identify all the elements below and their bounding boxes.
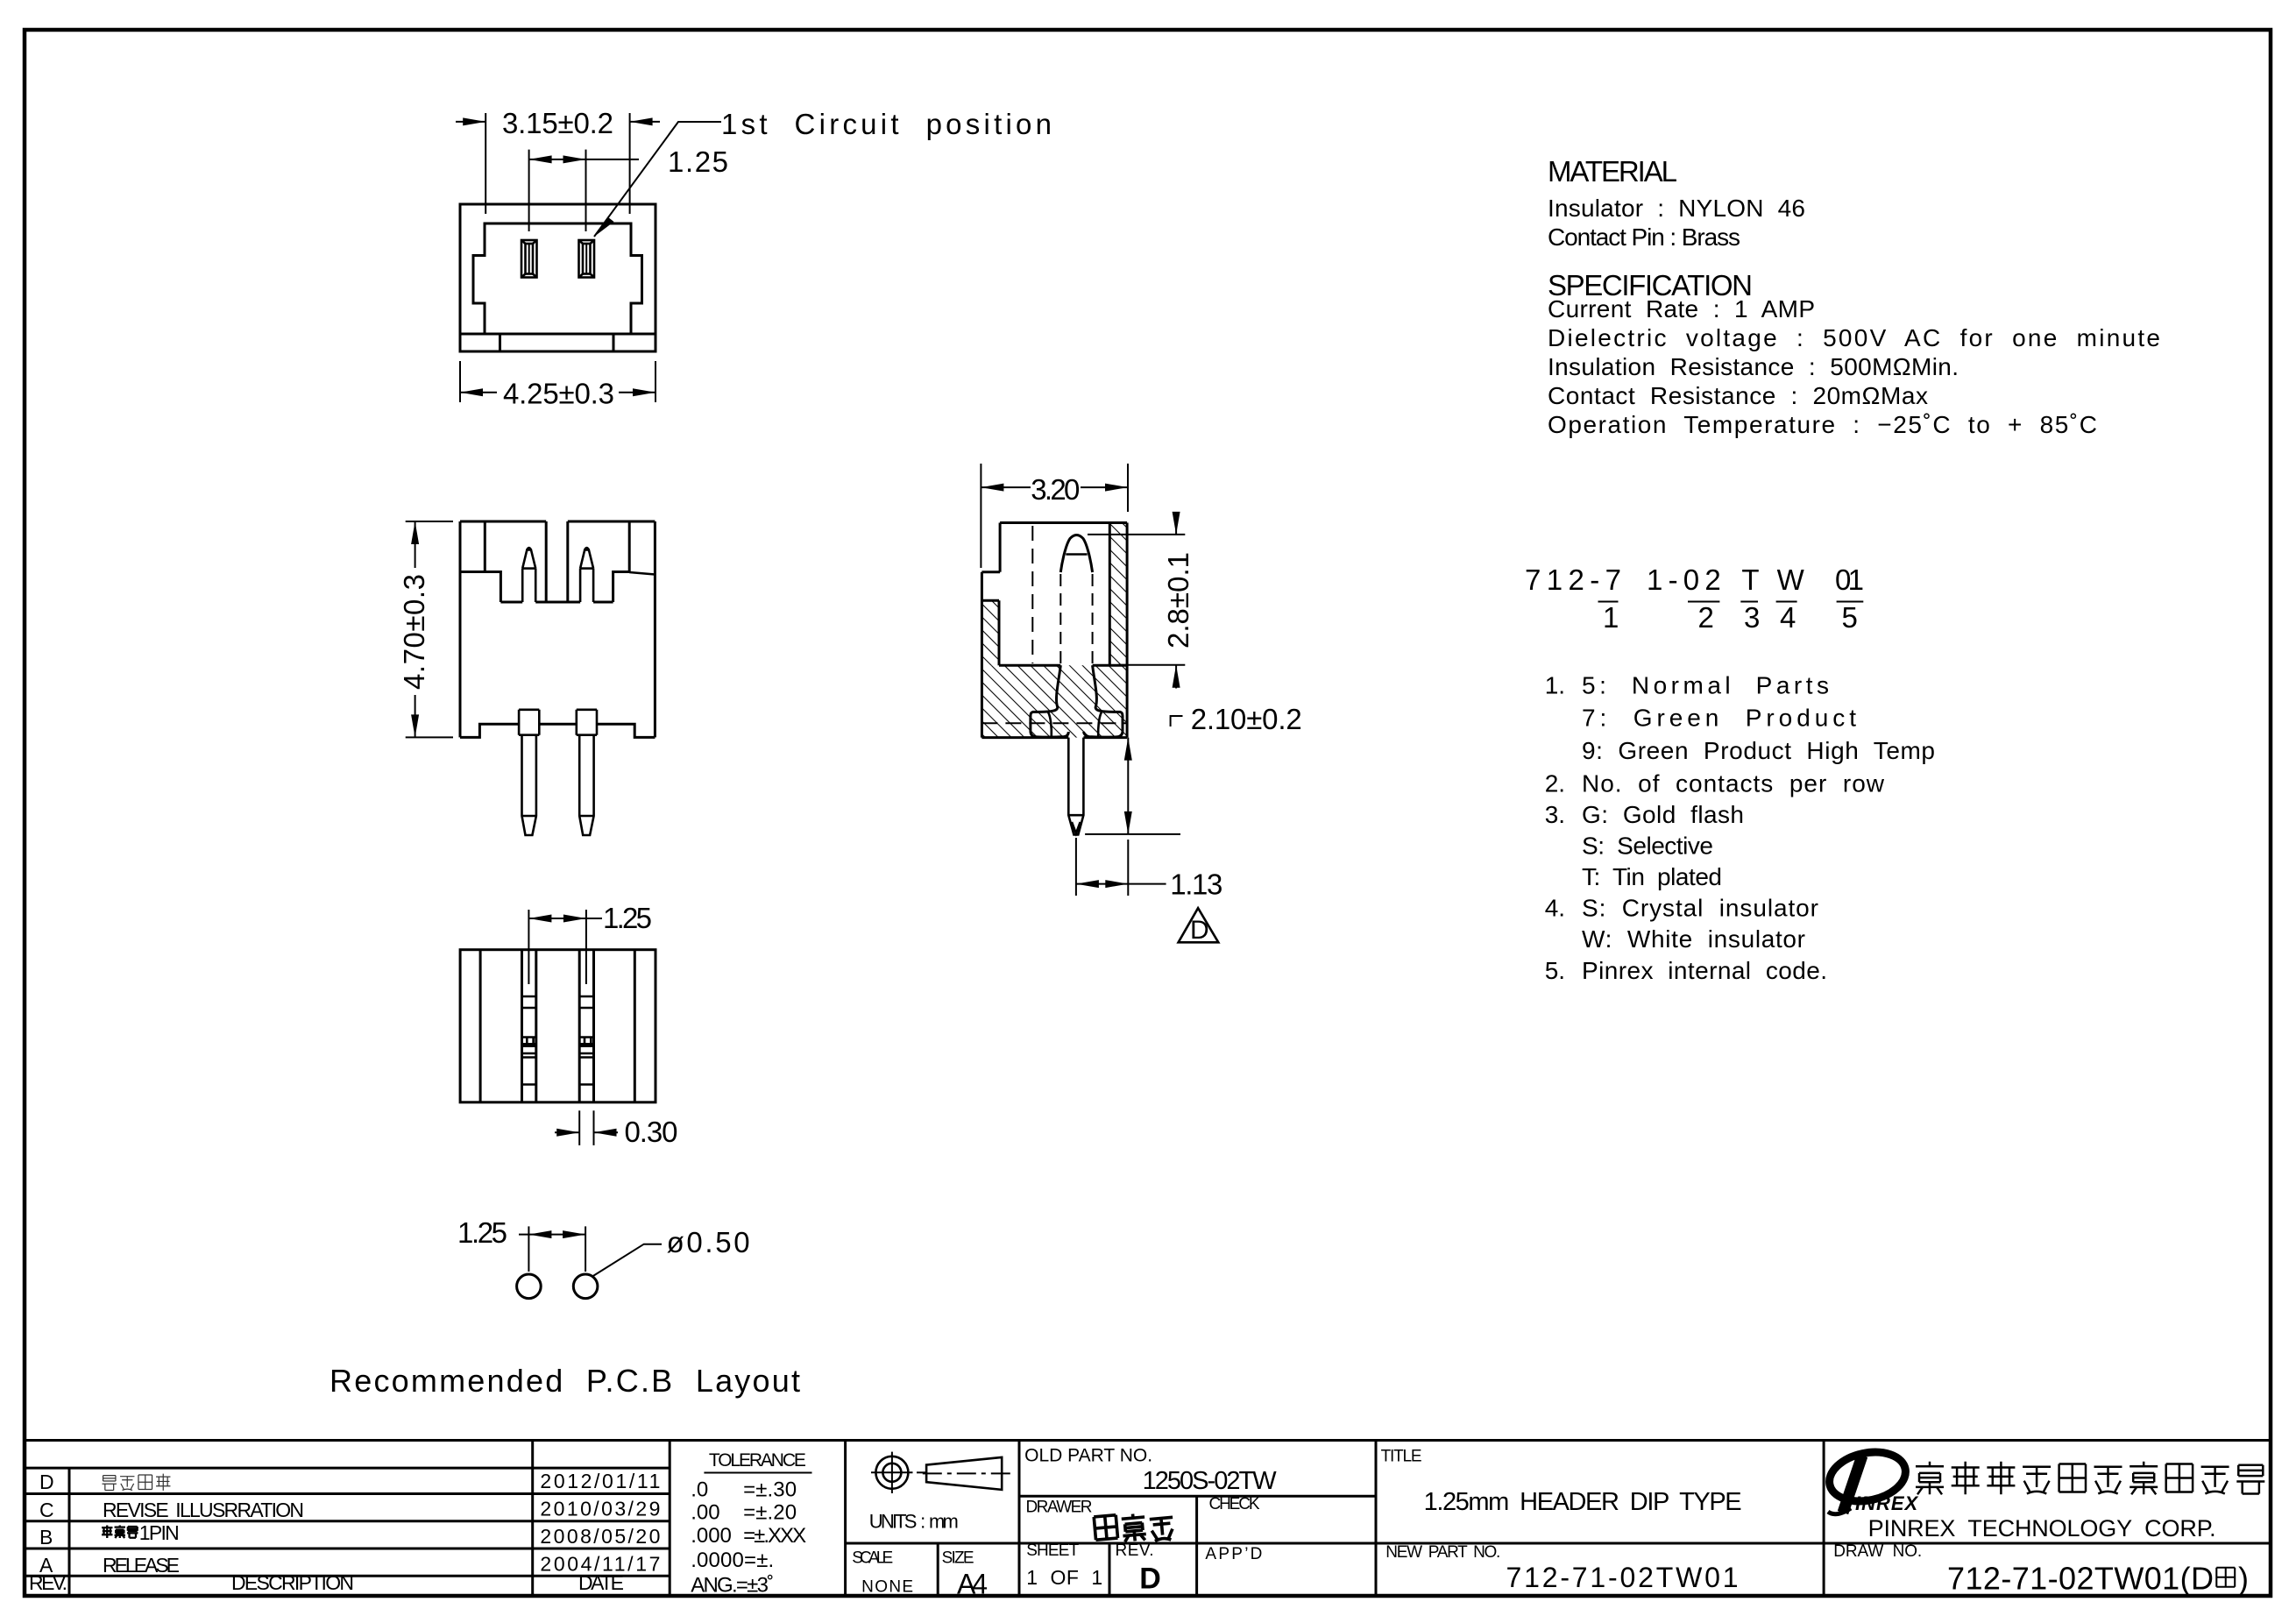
dim 3.20 line and arrows bbox=[981, 486, 1031, 488]
dim 4.70±0.3 extension lines bbox=[406, 521, 453, 522]
side view center slot walls bbox=[545, 521, 548, 602]
title block grid lines bbox=[25, 1441, 2271, 1597]
svg-text:1.25: 1.25 bbox=[457, 1216, 507, 1249]
svg-text:.000: .000 bbox=[691, 1524, 732, 1548]
front view bottom plate bbox=[460, 334, 655, 351]
svg-text:D: D bbox=[39, 1471, 54, 1493]
section hidden line cavity bbox=[1031, 526, 1033, 663]
section body top edge bbox=[1000, 521, 1127, 524]
svg-text:=±.30: =±.30 bbox=[743, 1478, 797, 1502]
svg-text:2.10±0.2: 2.10±0.2 bbox=[1191, 703, 1302, 735]
drawer signature CJK 胡雨婷 bbox=[1094, 1513, 1174, 1541]
svg-text:D: D bbox=[1139, 1563, 1161, 1596]
svg-text:SIZE: SIZE bbox=[942, 1549, 974, 1568]
svg-text:1.: 1. bbox=[1545, 672, 1565, 699]
svg-text:1250S-02TW: 1250S-02TW bbox=[1143, 1467, 1278, 1495]
svg-text:2: 2 bbox=[1698, 601, 1714, 634]
svg-text:2.8±0.1: 2.8±0.1 bbox=[1162, 552, 1194, 648]
svg-text:4.25±0.3: 4.25±0.3 bbox=[503, 378, 614, 410]
rev D description CJK 增加尺寸 bbox=[103, 1474, 171, 1491]
svg-text:9: Green Product High Temp: 9: Green Product High Temp bbox=[1582, 737, 1935, 764]
svg-text:Dielectric voltage : 500V: Dielectric voltage : 500V AC for one min… bbox=[1548, 324, 2160, 351]
section left outer edge bbox=[981, 572, 983, 738]
front view plate divider right bbox=[613, 334, 615, 351]
side view outer left edge bbox=[459, 521, 462, 737]
svg-text:W: W bbox=[1777, 563, 1805, 596]
svg-text:DATE: DATE bbox=[578, 1571, 624, 1594]
dim 4.25±0.3 extension lines bbox=[459, 361, 461, 402]
front view pin 1 slot bbox=[521, 240, 537, 278]
pcb dim 1.25 line and arrows bbox=[519, 1234, 585, 1236]
bottom view channel 1 walls bbox=[521, 950, 523, 1102]
svg-text:3: 3 bbox=[1744, 601, 1760, 634]
bottom view outline bbox=[460, 950, 655, 1102]
front view cavity outline bbox=[473, 223, 642, 334]
section pin dome bbox=[1060, 535, 1092, 573]
side view lower pin 1 bbox=[519, 710, 539, 835]
company name CJK bbox=[1916, 1462, 2264, 1495]
side view upper pin 1 bbox=[522, 548, 535, 602]
svg-text:T: T bbox=[1741, 563, 1759, 596]
cone symbol bbox=[926, 1457, 1002, 1490]
section pin flank right S-curve and foot bbox=[1083, 665, 1123, 737]
section pin shoulder inner curves bbox=[1048, 712, 1052, 737]
front view pin 2 slot bbox=[579, 240, 595, 278]
svg-text:W: White insulator: W: White insulator bbox=[1582, 925, 1805, 953]
svg-text:4: 4 bbox=[1780, 601, 1796, 634]
svg-text:S: Selective: S: Selective bbox=[1582, 832, 1713, 859]
svg-text:ANG.=±3˚: ANG.=±3˚ bbox=[691, 1573, 774, 1597]
svg-text:PINREX TECHNOLOGY CORP.: PINREX TECHNOLOGY CORP. bbox=[1868, 1515, 2216, 1541]
svg-text:1PIN: 1PIN bbox=[139, 1521, 180, 1544]
dim 1.25 extension lines (front) bbox=[528, 150, 530, 231]
dim 0.30 arrows bbox=[555, 1131, 579, 1133]
bottom view inner wall left bbox=[479, 950, 482, 1102]
side view outer right edge bbox=[654, 521, 656, 737]
svg-text:TITLE: TITLE bbox=[1381, 1447, 1422, 1465]
section left wall inner edge bbox=[998, 600, 1001, 665]
dim 2.10±0.2 dim line and arrows bbox=[1127, 738, 1129, 834]
svg-text:REV.: REV. bbox=[29, 1571, 67, 1594]
svg-text:RELEASE: RELEASE bbox=[103, 1554, 180, 1577]
svg-text:APP’D: APP’D bbox=[1205, 1545, 1262, 1563]
section pin rod below bbox=[1068, 738, 1083, 835]
svg-text:B: B bbox=[39, 1526, 53, 1549]
svg-text:A4: A4 bbox=[957, 1569, 988, 1600]
section cavity floor left segment bbox=[999, 664, 1060, 667]
side view left inner wall and step bbox=[460, 521, 500, 602]
svg-text:MATERIAL: MATERIAL bbox=[1548, 155, 1677, 188]
section hatch right wall bbox=[1109, 523, 1127, 666]
side view right wing diagonal bbox=[629, 572, 655, 575]
svg-text:S: Crystal insulator: S: Crystal insulator bbox=[1582, 895, 1818, 922]
svg-text:1.13: 1.13 bbox=[1170, 868, 1222, 900]
svg-text:): ) bbox=[2238, 1561, 2249, 1597]
dim 2.10±0.2 bottom extension bbox=[1085, 833, 1180, 835]
pcb hole 2 bbox=[573, 1274, 598, 1299]
svg-text:1.25: 1.25 bbox=[603, 902, 652, 934]
section bottom edge bbox=[981, 736, 1127, 739]
bottom view inner wall right bbox=[634, 950, 636, 1102]
svg-text:SCALE: SCALE bbox=[852, 1549, 893, 1568]
section left upper wall bbox=[999, 523, 1002, 572]
section right outer edge bbox=[1126, 523, 1129, 738]
dim 1.13 line and arrows bbox=[1076, 883, 1166, 885]
svg-text:Insulation Resistance : 500: Insulation Resistance : 500MΩMin. bbox=[1548, 353, 1959, 380]
dim 1.13 extension lines bbox=[1075, 838, 1077, 896]
side view cavity floor segments bbox=[500, 601, 522, 604]
dim 0.30 extension lines bbox=[578, 1110, 580, 1145]
svg-text:4.: 4. bbox=[1545, 895, 1565, 922]
svg-text:1.25: 1.25 bbox=[668, 145, 728, 178]
svg-text:712-7: 712-7 bbox=[1525, 563, 1621, 596]
svg-text:=±.20: =±.20 bbox=[743, 1501, 797, 1525]
svg-text:Contact Pin : Brass: Contact Pin : Brass bbox=[1548, 223, 1740, 251]
svg-text:.0: .0 bbox=[691, 1478, 708, 1502]
svg-text:ø0.50: ø0.50 bbox=[667, 1226, 750, 1258]
svg-text:5.: 5. bbox=[1545, 957, 1565, 984]
section right wall inner edge bbox=[1109, 523, 1111, 666]
pcb leader for hole diameter bbox=[592, 1244, 662, 1277]
part number underlines bbox=[1598, 601, 1864, 603]
svg-text:D: D bbox=[1190, 916, 1209, 945]
svg-text:3.20: 3.20 bbox=[1031, 473, 1080, 506]
svg-text:DRAW NO.: DRAW NO. bbox=[1833, 1542, 1922, 1561]
svg-text:Current Rate : 1 AMP: Current Rate : 1 AMP bbox=[1548, 295, 1815, 322]
svg-text:Insulator : NYLON 46: Insulator : NYLON 46 bbox=[1548, 195, 1805, 222]
dim 3.15±0.2 lines and arrows bbox=[456, 121, 485, 123]
front view housing outline bbox=[460, 204, 655, 334]
bottom view channel 1 ticks bbox=[522, 996, 536, 1085]
svg-text:712-71-02TW01(D: 712-71-02TW01(D bbox=[1947, 1561, 2214, 1597]
svg-text:3.15±0.2: 3.15±0.2 bbox=[502, 107, 613, 139]
side view lower pin 2 bbox=[577, 710, 597, 835]
section pin dome chord bbox=[1066, 553, 1087, 556]
svg-text:3.: 3. bbox=[1545, 801, 1565, 828]
svg-text:CHECK: CHECK bbox=[1209, 1495, 1260, 1513]
dim 2.10±0.2 elbow bbox=[1171, 716, 1183, 726]
svg-text:4.70±0.3: 4.70±0.3 bbox=[398, 574, 430, 690]
dim 1.25 line and arrows (front) bbox=[529, 159, 639, 160]
pcb dim 1.25 extension lines bbox=[528, 1226, 529, 1272]
svg-text:1.25mm HEADER DIP TYPE: 1.25mm HEADER DIP TYPE bbox=[1424, 1488, 1742, 1516]
section pin hidden flanks bbox=[1059, 574, 1061, 663]
dim 4.70±0.3 dim line and arrows bbox=[415, 521, 416, 568]
section left step bbox=[981, 571, 1000, 573]
svg-text:DESCRIPTION: DESCRIPTION bbox=[231, 1571, 354, 1594]
svg-text:SHEET: SHEET bbox=[1026, 1541, 1079, 1560]
rev B description CJK 標示第1PIN bbox=[102, 1525, 138, 1538]
svg-text:REV.: REV. bbox=[1116, 1541, 1154, 1560]
svg-text:1-02: 1-02 bbox=[1647, 563, 1721, 596]
svg-text:1 OF 1: 1 OF 1 bbox=[1026, 1566, 1102, 1589]
third angle projection symbol bbox=[871, 1452, 926, 1493]
svg-text:.00: .00 bbox=[691, 1501, 719, 1525]
svg-text:01: 01 bbox=[1835, 563, 1864, 596]
side view top edge left segment bbox=[460, 521, 546, 523]
dim 2.8±0.1 arrows bbox=[1175, 513, 1177, 535]
revision triangle D bbox=[1179, 908, 1219, 942]
svg-text:=±.XXX: =±.XXX bbox=[743, 1524, 806, 1548]
svg-text:1: 1 bbox=[1603, 601, 1619, 634]
section cavity floor right segment bbox=[1093, 664, 1128, 667]
side view bottom profile with feet bbox=[460, 724, 655, 737]
section hatch left wall bbox=[981, 600, 999, 665]
svg-text:Recommended P.C.B Layout: Recommended P.C.B Layout bbox=[330, 1363, 800, 1399]
dim 4.25±0.3 line and arrows bbox=[460, 392, 497, 393]
pcb hole 1 bbox=[517, 1274, 542, 1299]
svg-text:REVISE ILLUSRRATION: REVISE ILLUSRRATION bbox=[103, 1499, 304, 1521]
dim 1.25 extension lines (bottom view) bbox=[528, 910, 529, 984]
svg-text:T: Tin plated: T: Tin plated bbox=[1582, 863, 1722, 890]
svg-text:No. of contacts per row: No. of contacts per row bbox=[1582, 769, 1885, 797]
svg-text:.0000=±.: .0000=±. bbox=[691, 1549, 774, 1572]
section left wall hatch top bbox=[981, 599, 999, 602]
svg-text:0.30: 0.30 bbox=[625, 1116, 678, 1148]
side view top edge right segment bbox=[568, 521, 655, 523]
svg-text:OLD PART NO.: OLD PART NO. bbox=[1024, 1446, 1152, 1466]
svg-text:5: 5 bbox=[1842, 601, 1858, 634]
side view right inner wall and step bbox=[613, 521, 630, 602]
company logo P bbox=[1825, 1445, 1918, 1514]
svg-text:2.: 2. bbox=[1545, 769, 1565, 797]
svg-text:DRAWER: DRAWER bbox=[1026, 1499, 1093, 1517]
svg-text:Contact Resistance : 20mΩMa: Contact Resistance : 20mΩMax bbox=[1548, 382, 1928, 409]
dim 2.8±0.1 extension lines bbox=[1088, 534, 1185, 535]
svg-text:G: Gold flash: G: Gold flash bbox=[1582, 801, 1744, 828]
side view upper pin 2 bbox=[580, 548, 593, 602]
dim 3.15±0.2 extension lines bbox=[485, 113, 486, 214]
section pin rod chamfer bbox=[1072, 822, 1081, 833]
svg-text:TOLERANCE: TOLERANCE bbox=[709, 1450, 806, 1471]
front view plate divider left bbox=[499, 334, 501, 351]
svg-text:NONE: NONE bbox=[861, 1577, 913, 1596]
leader 1st circuit position bbox=[594, 122, 721, 237]
section pin flank left S-curve and foot bbox=[1031, 665, 1068, 737]
svg-text:C: C bbox=[39, 1499, 54, 1521]
dim 3.20 extension lines bbox=[980, 464, 981, 568]
bottom view channel 2 ticks bbox=[579, 996, 593, 1085]
bottom view channel 2 walls bbox=[578, 950, 581, 1102]
svg-text:NEW PART NO.: NEW PART NO. bbox=[1385, 1543, 1500, 1562]
svg-text:INREX: INREX bbox=[1855, 1492, 1919, 1514]
svg-text:Operation Temperature : −25: Operation Temperature : −25˚C to + 85˚C bbox=[1548, 411, 2097, 438]
section slab hidden line bbox=[981, 722, 1127, 724]
svg-text:Pinrex internal code.: Pinrex internal code. bbox=[1582, 957, 1827, 984]
section hatch bottom slab bbox=[981, 665, 1127, 737]
dim 1.25 line and arrows (bottom view) bbox=[528, 918, 602, 919]
svg-text:UNITS : mm: UNITS : mm bbox=[869, 1510, 959, 1532]
